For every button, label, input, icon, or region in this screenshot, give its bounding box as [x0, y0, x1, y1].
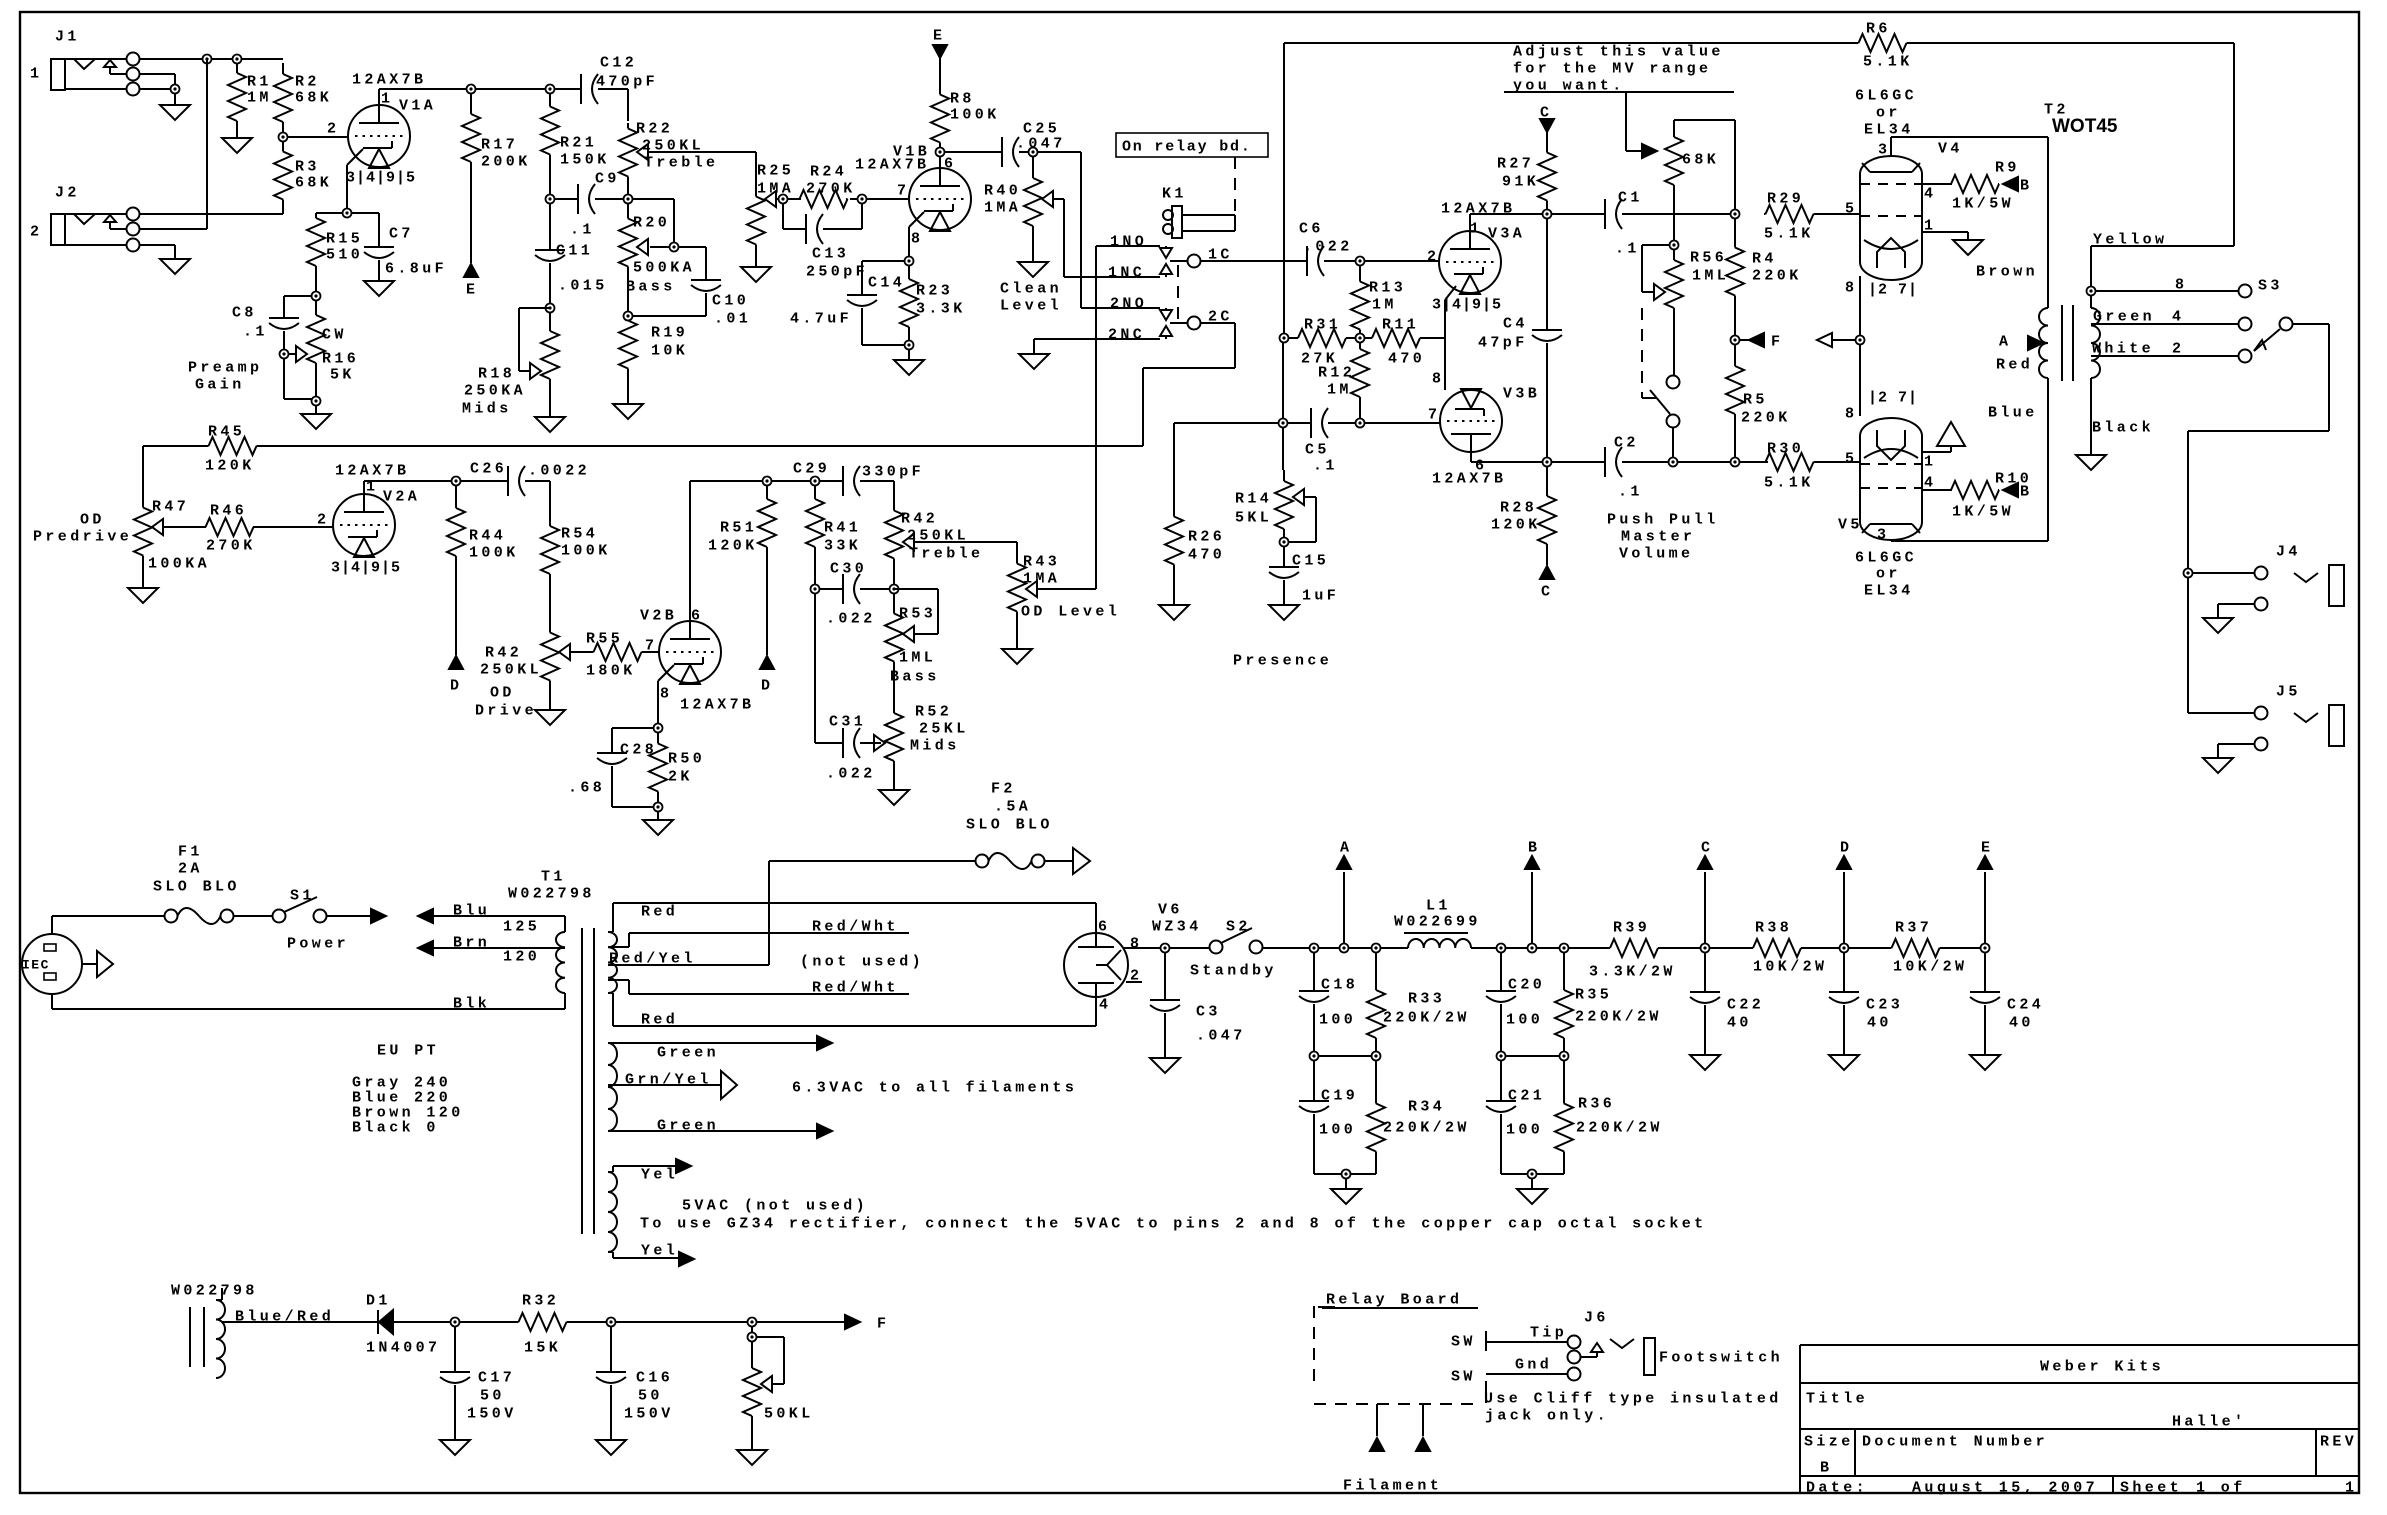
svg-text:C1: C1: [1618, 189, 1643, 206]
svg-text:100K: 100K: [469, 544, 519, 561]
svg-text:2NO: 2NO: [1110, 295, 1147, 312]
svg-text:R51: R51: [720, 519, 757, 536]
node: [467, 85, 476, 94]
svg-text:OD: OD: [490, 684, 515, 701]
svg-text:Tip: Tip: [1530, 1324, 1567, 1341]
ground: [643, 820, 673, 835]
svg-text:for the MV range: for the MV range: [1513, 60, 1711, 77]
svg-text:1MA: 1MA: [984, 199, 1021, 216]
connector IEC: [22, 934, 113, 994]
svg-text:1: 1: [1924, 453, 1936, 470]
svg-text:Push Pull: Push Pull: [1607, 511, 1719, 528]
wire wiper R43: [1037, 588, 1096, 590]
svg-text:Blue: Blue: [1988, 404, 2038, 421]
resistor R10: [1951, 470, 2032, 520]
ground: [1159, 569, 1189, 620]
svg-text:R11: R11: [1382, 316, 1419, 333]
resistor R9: [1951, 159, 2020, 212]
svg-text:100: 100: [1506, 1011, 1543, 1028]
svg-text:47pF: 47pF: [1478, 334, 1528, 351]
svg-text:R9: R9: [1995, 159, 2020, 176]
svg-text:150V: 150V: [467, 1405, 517, 1422]
wire: [1359, 404, 1361, 419]
wire: [657, 811, 659, 820]
wire: [1174, 423, 1279, 512]
wire pin5 V4: [1815, 213, 1860, 215]
wire: [866, 198, 909, 200]
wire: [1943, 947, 1981, 949]
capacitor C12: [581, 54, 658, 121]
svg-text:R46: R46: [210, 502, 247, 519]
svg-text:Standby: Standby: [1190, 962, 1277, 979]
svg-text:V6: V6: [1158, 901, 1183, 918]
wire: [1551, 213, 1605, 215]
jack J4: [2192, 543, 2344, 618]
label 6L6GC or EL34 b: [1855, 549, 1917, 599]
svg-text:1NC: 1NC: [1108, 264, 1145, 281]
wire note pointer: [1626, 92, 1657, 158]
svg-text:1NO: 1NO: [1110, 233, 1147, 250]
svg-text:1ML: 1ML: [1692, 267, 1729, 284]
svg-text:C4: C4: [1503, 315, 1528, 332]
svg-text:C3: C3: [1196, 1003, 1221, 1020]
label Push Pull MV: [1607, 511, 1719, 562]
svg-text:Blue/Red: Blue/Red: [235, 1308, 334, 1325]
wire plate V2A: [364, 481, 452, 494]
power tube V5: [1838, 389, 1936, 543]
svg-text:R13: R13: [1369, 279, 1406, 296]
svg-text:F: F: [877, 1315, 889, 1332]
svg-text:J1: J1: [55, 28, 80, 45]
svg-text:V4: V4: [1938, 140, 1963, 157]
ground: [2076, 455, 2106, 470]
capacitor C6: [1299, 220, 1356, 276]
node D: [449, 656, 463, 694]
node: [2184, 569, 2193, 578]
T1 filament winding: [608, 1043, 617, 1131]
svg-text:R14: R14: [1235, 490, 1272, 507]
resistor R34: [1367, 1060, 1470, 1170]
wire: [819, 480, 838, 482]
triode V3A: [1427, 200, 1525, 313]
wire plate V4: [1891, 137, 2048, 156]
svg-text:IEC: IEC: [22, 958, 50, 973]
wire pin1 V5: [1922, 446, 1951, 452]
svg-text:Gain: Gain: [195, 376, 245, 393]
wire: [908, 349, 910, 360]
node: [1356, 419, 1365, 428]
svg-text:470pF: 470pF: [596, 73, 658, 90]
svg-text:.022: .022: [1303, 238, 1353, 255]
node V1A grid: [279, 133, 288, 142]
svg-text:15K: 15K: [524, 1339, 561, 1356]
svg-text:.1: .1: [1618, 483, 1643, 500]
resistor R5: [1726, 344, 1791, 436]
resistor R46: [206, 502, 256, 554]
wire plate V3A: [1470, 214, 1543, 231]
wire: [1546, 132, 1548, 143]
svg-text:On relay bd.: On relay bd.: [1122, 138, 1252, 155]
svg-text:C: C: [1701, 839, 1713, 856]
svg-text:3.3K: 3.3K: [916, 300, 966, 317]
ground: [1690, 1055, 1720, 1070]
wire: [316, 212, 343, 214]
svg-text:180K: 180K: [586, 662, 636, 679]
wire: [1364, 260, 1439, 262]
svg-text:E: E: [933, 27, 945, 44]
node: [624, 312, 633, 321]
resistor R27: [1497, 143, 1556, 210]
svg-text:W022699: W022699: [1394, 913, 1481, 930]
svg-text:220K/2W: 220K/2W: [1383, 1119, 1470, 1136]
node E: [464, 264, 478, 298]
capacitor C11: [535, 203, 608, 304]
wire grnyel: [608, 1071, 737, 1099]
svg-text:50: 50: [480, 1387, 505, 1404]
svg-text:V2B: V2B: [640, 607, 677, 624]
power tube V4: [1845, 140, 1963, 298]
transformer T2: [2039, 101, 2118, 541]
svg-text:1: 1: [2345, 1479, 2357, 1496]
svg-text:5.1K: 5.1K: [1764, 474, 1814, 491]
svg-text:EU PT: EU PT: [377, 1042, 439, 1059]
node: [1279, 419, 1288, 428]
ground: [440, 1440, 470, 1455]
resistor R24: [800, 163, 856, 208]
svg-text:B: B: [1820, 1459, 1832, 1476]
wire: [1568, 947, 1608, 949]
svg-text:R42: R42: [901, 510, 938, 527]
svg-text:B: B: [2020, 177, 2032, 194]
label OD Drive: [475, 684, 537, 719]
inductor L1: [1394, 897, 1481, 948]
label SW: [1451, 1333, 1476, 1385]
potentiometer R42 OD Drive: [480, 625, 570, 688]
label cliff: [1484, 1390, 1782, 1424]
wire: [459, 1321, 515, 1323]
svg-text:1 of: 1 of: [2196, 1479, 2246, 1496]
wire 2ohm: [2091, 340, 2238, 357]
node: [654, 724, 663, 733]
node D: [760, 656, 774, 694]
wire green top: [608, 1036, 832, 1061]
svg-text:D: D: [1840, 839, 1852, 856]
svg-text:Black 0: Black 0: [352, 1119, 439, 1136]
svg-text:68K: 68K: [295, 174, 332, 191]
label EU PT: [377, 1042, 439, 1059]
wire: [1096, 245, 1160, 247]
svg-text:330pF: 330pF: [862, 463, 924, 480]
svg-text:100: 100: [1319, 1121, 1356, 1138]
svg-text:jack only.: jack only.: [1485, 1407, 1609, 1424]
wire: [1045, 848, 1090, 874]
svg-text:R40: R40: [984, 182, 1021, 199]
svg-text:8: 8: [1130, 935, 1142, 952]
svg-text:33K: 33K: [824, 537, 861, 554]
svg-text:1: 1: [30, 65, 42, 82]
wire blk: [52, 993, 565, 1012]
wire redyel: [608, 950, 924, 970]
capacitor C3: [1150, 1000, 1246, 1058]
node B rail: [1525, 839, 1540, 952]
wire wiper R56: [1642, 245, 1670, 292]
svg-text:C29: C29: [793, 460, 830, 477]
svg-text:C9: C9: [595, 170, 620, 187]
ground: [894, 360, 924, 375]
wire: [554, 88, 581, 90]
capacitor C7: [351, 213, 447, 281]
wire plate V1B: [944, 151, 1002, 153]
ground: [1002, 614, 1032, 664]
wire: [52, 916, 165, 934]
node: [1029, 148, 1038, 157]
svg-text:Red: Red: [1996, 356, 2033, 373]
node: [1161, 944, 1170, 953]
wire cathode V1B: [909, 212, 924, 257]
svg-text:10K: 10K: [651, 342, 688, 359]
potentiometer R25: [747, 162, 794, 250]
svg-text:R55: R55: [586, 630, 623, 647]
svg-text:R15: R15: [326, 230, 363, 247]
svg-text:8: 8: [911, 230, 923, 247]
svg-text:1uF: 1uF: [1302, 587, 1339, 604]
svg-text:B: B: [2020, 483, 2032, 500]
capacitor C4: [1478, 218, 1562, 458]
svg-text:1M: 1M: [247, 89, 272, 106]
svg-text:Brown: Brown: [1976, 263, 2038, 280]
svg-text:Blk: Blk: [453, 995, 490, 1012]
svg-text:R41: R41: [824, 519, 861, 536]
capacitor C17: [440, 1326, 517, 1440]
label 1NC: [1108, 264, 1145, 281]
svg-text:Date:: Date:: [1806, 1479, 1868, 1496]
resistor R41: [806, 485, 861, 561]
svg-text:1: 1: [381, 90, 393, 107]
wire: [862, 261, 905, 295]
svg-text:R45: R45: [208, 423, 245, 440]
svg-text:Mids: Mids: [910, 737, 960, 754]
svg-text:50: 50: [638, 1387, 663, 1404]
ground: [2203, 758, 2233, 773]
node: [1731, 210, 1740, 219]
svg-text:SW: SW: [1451, 1333, 1476, 1350]
potentiometer R53 Bass: [885, 593, 940, 685]
svg-text:8: 8: [1432, 370, 1444, 387]
svg-text:8: 8: [2175, 276, 2187, 293]
svg-text:C16: C16: [636, 1369, 673, 1386]
node: [1497, 1052, 1569, 1061]
svg-text:R31: R31: [1304, 316, 1341, 333]
wire: [1546, 548, 1548, 565]
ground 2NC: [1019, 339, 1049, 369]
label EU PT table: [352, 1074, 464, 1136]
capacitor C9: [554, 170, 624, 238]
svg-text:SW: SW: [1451, 1368, 1476, 1385]
svg-text:470: 470: [1188, 546, 1225, 563]
label 2NO: [1110, 295, 1147, 312]
label 63vac: [792, 1079, 1077, 1096]
resistor 68K: [1665, 120, 1735, 210]
ground: [160, 105, 190, 120]
svg-text:R26: R26: [1188, 528, 1225, 545]
wire: [253, 526, 333, 528]
fuse F2: [966, 780, 1053, 869]
svg-text:D: D: [450, 677, 462, 694]
wire: [1124, 947, 1161, 949]
svg-text:120: 120: [503, 948, 540, 965]
node: [624, 195, 633, 204]
node E rail: [1978, 839, 1993, 952]
svg-text:Mids: Mids: [462, 400, 512, 417]
resistor R44: [447, 485, 519, 579]
svg-text:6: 6: [944, 155, 956, 172]
box On relay bd.: [1116, 133, 1268, 157]
label Relay Board: [1318, 1291, 1478, 1308]
node F: [1731, 333, 1784, 350]
wire: [766, 561, 768, 655]
wire blu: [418, 902, 565, 935]
node A: [1996, 333, 2043, 373]
wire SW bar: [1485, 1331, 1487, 1403]
svg-text:R52: R52: [915, 703, 952, 720]
svg-text:R18: R18: [478, 365, 515, 382]
wire red top: [613, 903, 1096, 933]
node R1 top: [233, 55, 242, 64]
node: [1528, 1170, 1537, 1190]
wire clean out: [1037, 152, 1096, 308]
svg-text:Treble: Treble: [909, 545, 983, 562]
svg-text:120K: 120K: [1491, 516, 1541, 533]
wire yellow: [2091, 231, 2234, 287]
wire dashed: [1234, 157, 1236, 213]
svg-text:R36: R36: [1578, 1095, 1615, 1112]
svg-text:100K: 100K: [950, 106, 1000, 123]
node C top: [1540, 104, 1554, 132]
wire: [645, 651, 659, 653]
svg-text:2: 2: [327, 120, 339, 137]
ground: [1150, 1058, 1180, 1073]
svg-text:40: 40: [1727, 1014, 1752, 1031]
svg-text:270K: 270K: [206, 537, 256, 554]
svg-text:R43: R43: [1023, 553, 1060, 570]
svg-text:R1: R1: [247, 73, 272, 90]
wire feedback top: [1284, 43, 1855, 334]
svg-text:T1: T1: [541, 868, 566, 885]
capacitor C18: [1299, 952, 1358, 1052]
svg-text:40: 40: [2009, 1014, 2034, 1031]
potentiometer R43 OD Level: [1008, 553, 1120, 620]
svg-text:|2 7|: |2 7|: [1868, 389, 1918, 406]
node: [748, 1333, 757, 1342]
svg-text:V3B: V3B: [1503, 385, 1540, 402]
wire: [1536, 947, 1560, 949]
resistor R35: [1555, 952, 1662, 1052]
svg-text:R30: R30: [1767, 440, 1804, 457]
svg-text:Size: Size: [1804, 1433, 1854, 1450]
svg-text:.68: .68: [568, 779, 605, 796]
svg-text:7: 7: [1428, 406, 1440, 423]
svg-text:V1A: V1A: [399, 97, 436, 114]
svg-text:6L6GC: 6L6GC: [1855, 549, 1917, 566]
svg-text:220K: 220K: [1741, 409, 1791, 426]
resistor R2: [274, 63, 332, 133]
svg-text:R35: R35: [1575, 986, 1612, 1003]
svg-text:C21: C21: [1508, 1087, 1545, 1104]
svg-text:C26: C26: [470, 460, 507, 477]
svg-text:220K/2W: 220K/2W: [1575, 1008, 1662, 1025]
wire: [470, 183, 472, 263]
wire cathode V3A: [1445, 286, 1456, 390]
wire cathode V1A: [347, 149, 363, 209]
resistor R29: [1764, 190, 1815, 242]
svg-text:R54: R54: [561, 525, 598, 542]
svg-text:.1: .1: [1313, 457, 1338, 474]
wire redwht2: [608, 979, 909, 996]
svg-text:W022798: W022798: [171, 1282, 258, 1299]
svg-text:3: 3: [1877, 526, 1889, 543]
node: [1670, 241, 1679, 250]
triode V2B: [640, 607, 754, 713]
svg-text:C2: C2: [1614, 434, 1639, 451]
node: [763, 477, 772, 486]
wire wiper R14: [1288, 497, 1316, 542]
svg-text:C19: C19: [1321, 1087, 1358, 1104]
svg-text:.022: .022: [826, 610, 876, 627]
node C rail: [1698, 839, 1713, 952]
wire: [1034, 338, 1160, 340]
potentiometer R22 Treble: [619, 120, 718, 182]
wire: [787, 198, 801, 200]
label 5vac: [682, 1197, 868, 1214]
wire black: [2091, 378, 2154, 455]
svg-text:or: or: [1876, 104, 1901, 121]
capacitor C22: [1690, 952, 1764, 1055]
svg-text:Blu: Blu: [453, 902, 490, 919]
svg-text:L1: L1: [1426, 897, 1451, 914]
wire: [549, 579, 551, 625]
ground: [222, 131, 252, 153]
switch pull: [1650, 319, 1680, 458]
svg-text:D1: D1: [366, 1292, 391, 1309]
svg-text:Black: Black: [2092, 419, 2154, 436]
svg-text:8: 8: [1845, 279, 1857, 296]
svg-text:C24: C24: [2007, 996, 2044, 1013]
wire: [1314, 1170, 1376, 1174]
resistor R33: [1367, 952, 1470, 1052]
svg-text:C13: C13: [812, 245, 849, 262]
resistor R1: [228, 63, 272, 131]
jack J2: [30, 184, 140, 251]
wire plate V1A: [379, 89, 467, 105]
wire: [233, 915, 273, 917]
contact 2C: [1188, 308, 1233, 329]
capacitor C30: [819, 560, 890, 627]
svg-text:R27: R27: [1497, 155, 1534, 172]
wire: [1380, 947, 1408, 949]
svg-text:C14: C14: [868, 274, 905, 291]
label F1: [153, 843, 240, 895]
ground: [1970, 1055, 2000, 1070]
svg-text:68K: 68K: [295, 89, 332, 106]
svg-text:R33: R33: [1408, 990, 1445, 1007]
wire: [1734, 298, 1736, 336]
svg-text:R56: R56: [1690, 249, 1727, 266]
ground: [128, 562, 158, 603]
svg-text:5VAC (not used): 5VAC (not used): [682, 1197, 868, 1214]
svg-text:E: E: [1981, 839, 1993, 856]
resistor R6: [1855, 20, 1913, 70]
resistor R54: [541, 521, 611, 579]
